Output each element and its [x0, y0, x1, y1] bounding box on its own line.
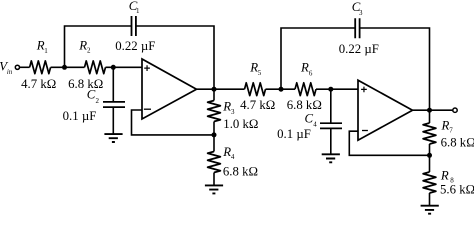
resistor R1 [30, 61, 51, 74]
capacitor C4 [320, 123, 342, 128]
node A junction [62, 65, 67, 70]
wire C3 to node F [360, 28, 430, 110]
svg-text:1: 1 [136, 7, 140, 15]
svg-text:6.8 kΩ: 6.8 kΩ [68, 77, 103, 91]
wire node E up to C3 [281, 28, 355, 89]
ground (C4) [322, 154, 340, 162]
svg-text:in: in [7, 69, 13, 76]
svg-text:4.7 kΩ: 4.7 kΩ [21, 77, 56, 91]
svg-text:0.22 µF: 0.22 µF [339, 42, 379, 56]
op-amp U2 plus pin [361, 87, 367, 93]
svg-text:3: 3 [231, 108, 235, 116]
resistor R4 [208, 152, 221, 173]
svg-text:C: C [305, 112, 314, 126]
wire R2 to op-amp U1 non-inverting input [106, 66, 143, 68]
svg-text:6.8 kΩ: 6.8 kΩ [287, 98, 322, 112]
svg-text:R: R [222, 100, 231, 114]
wire op-amp U1 output to R5 [197, 88, 245, 90]
node Vin label [0, 59, 13, 75]
wire op-amp U2 output to terminal [413, 109, 453, 111]
capacitor C1 [132, 16, 136, 36]
wire R3 to node D [213, 122, 215, 152]
capacitor C2 [103, 102, 125, 107]
svg-text:0.22 µF: 0.22 µF [115, 39, 155, 53]
ground (R4) [205, 185, 223, 193]
svg-text:R: R [78, 39, 87, 53]
svg-text:0.1 µF: 0.1 µF [63, 109, 97, 123]
wire node A up to C1 [65, 26, 132, 67]
ground (R8) [421, 206, 439, 214]
capacitor C3 [355, 18, 359, 38]
svg-text:1: 1 [44, 47, 48, 55]
wire C1 to node B [136, 26, 214, 89]
svg-text:6: 6 [309, 69, 313, 77]
ground (C2) [104, 134, 122, 142]
op-amp U1 [142, 59, 197, 119]
svg-text:R: R [300, 61, 309, 75]
wire R6 to op-amp U2 non-inverting input [316, 88, 358, 90]
op-amp U2 minus pin [362, 130, 368, 132]
wire node F down to R7 [429, 110, 431, 123]
wire op-amp U1 inverting input feedback [132, 110, 215, 135]
node E junction [279, 87, 284, 92]
wire C2 to ground [112, 107, 114, 134]
input terminal [15, 65, 19, 69]
resistor R5 [245, 83, 266, 96]
wire node C down to C2 [112, 67, 114, 102]
svg-text:6.8 kΩ: 6.8 kΩ [441, 136, 474, 150]
resistor R3 [208, 101, 221, 122]
node G junction [328, 87, 333, 92]
resistor R2 [85, 61, 106, 74]
wire R5 to R6 [266, 88, 296, 90]
wire input to R1 [20, 66, 30, 68]
svg-text:6.8 kΩ: 6.8 kΩ [223, 164, 258, 178]
svg-text:4: 4 [313, 121, 317, 129]
svg-text:5: 5 [258, 69, 262, 77]
svg-text:C: C [87, 87, 96, 101]
svg-text:3: 3 [359, 9, 363, 17]
node D junction [212, 132, 217, 137]
svg-text:2: 2 [87, 47, 91, 55]
resistor R6 [295, 83, 316, 96]
node C junction [111, 65, 116, 70]
node H junction [427, 153, 432, 158]
svg-text:7: 7 [449, 127, 453, 135]
wire R7 to node H [429, 144, 431, 172]
wire C4 to ground [330, 128, 332, 154]
op-amp U1 minus pin [144, 108, 151, 110]
wire R1 to R2 [51, 66, 85, 68]
svg-text:2: 2 [96, 97, 100, 105]
resistor R7 [423, 123, 436, 144]
svg-text:5.6 kΩ: 5.6 kΩ [440, 183, 474, 197]
output terminal [453, 108, 457, 112]
wire node B down to R3 [213, 89, 215, 100]
resistor R8 [423, 172, 436, 193]
svg-text:R: R [440, 168, 449, 182]
svg-text:4.7 kΩ: 4.7 kΩ [240, 98, 275, 112]
svg-text:4: 4 [231, 153, 235, 161]
node F junction [427, 108, 432, 113]
node B junction [212, 87, 217, 92]
svg-text:1.0 kΩ: 1.0 kΩ [223, 117, 258, 131]
svg-text:0.1 µF: 0.1 µF [277, 127, 311, 141]
wire R8 to ground [429, 193, 431, 205]
wire node G down to C4 [330, 89, 332, 123]
op-amp U2 [358, 80, 413, 140]
svg-text:R: R [441, 118, 450, 132]
wire op-amp U2 inverting input feedback [349, 131, 429, 155]
op-amp U1 plus pin [144, 65, 150, 71]
wire R4 to ground [213, 173, 215, 186]
